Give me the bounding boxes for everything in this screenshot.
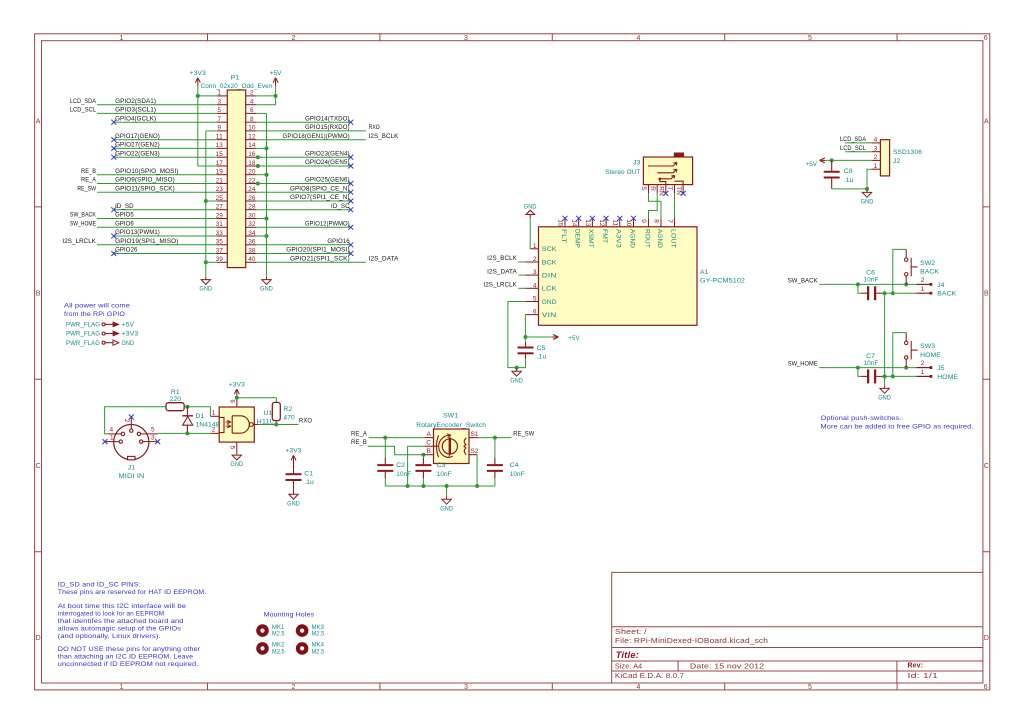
A1 pin 1 SCK bbox=[530, 248, 538, 250]
svg-text:5: 5 bbox=[808, 35, 812, 42]
svg-text:than attaching an I2C ID EEPRO: than attaching an I2C ID EEPROM. Leave bbox=[58, 654, 194, 661]
junction bbox=[204, 260, 208, 264]
svg-text:I2S_BCLK: I2S_BCLK bbox=[369, 133, 399, 140]
svg-text:C5: C5 bbox=[537, 345, 546, 352]
wire J2 pin1 down bbox=[867, 169, 872, 189]
A1 pin 12 FMT bbox=[605, 218, 607, 227]
svg-text:2: 2 bbox=[921, 277, 925, 284]
svg-text:4: 4 bbox=[637, 35, 641, 42]
svg-text:8: 8 bbox=[250, 116, 254, 123]
svg-text:3: 3 bbox=[464, 35, 468, 42]
wire R1 to U1 pin1 bbox=[184, 407, 210, 417]
P1 pin 24 bbox=[246, 191, 257, 193]
svg-text:3: 3 bbox=[533, 269, 537, 276]
svg-text:RE_B: RE_B bbox=[351, 439, 367, 446]
wire to GND rail bbox=[256, 147, 266, 149]
svg-text:GPIO4(GCLK): GPIO4(GCLK) bbox=[115, 115, 156, 122]
svg-text:1: 1 bbox=[533, 243, 537, 250]
svg-text:6: 6 bbox=[984, 35, 988, 42]
SW1 pin S1 bbox=[469, 437, 479, 439]
no-connect bbox=[563, 216, 568, 221]
wire C5 to GND bbox=[517, 359, 526, 368]
junction bbox=[274, 423, 278, 427]
svg-text:2: 2 bbox=[874, 154, 878, 161]
svg-text:1: 1 bbox=[921, 369, 925, 376]
svg-text:LCD_SCL: LCD_SCL bbox=[840, 145, 866, 152]
junction bbox=[256, 182, 260, 186]
no-connect bbox=[348, 199, 353, 204]
svg-text:.1u: .1u bbox=[844, 177, 854, 184]
P1 pin 12 bbox=[246, 139, 257, 141]
wire bbox=[518, 261, 525, 263]
svg-text:R2: R2 bbox=[283, 406, 292, 413]
svg-text:4: 4 bbox=[250, 99, 254, 106]
P1 pin 6 bbox=[246, 112, 257, 114]
junction bbox=[265, 173, 269, 177]
SW1 pin B bbox=[425, 454, 434, 456]
svg-text:+5V: +5V bbox=[122, 322, 135, 329]
svg-text:M2.5: M2.5 bbox=[312, 648, 325, 655]
svg-text:I2S_BCLK: I2S_BCLK bbox=[487, 255, 517, 262]
svg-text:10nF: 10nF bbox=[510, 471, 525, 478]
J1 pin 5 bbox=[137, 432, 140, 435]
no-connect bbox=[663, 191, 668, 196]
svg-text:+5V: +5V bbox=[568, 335, 580, 342]
svg-text:A: A bbox=[427, 431, 432, 438]
wire RE_A to pin A bbox=[369, 437, 425, 439]
svg-text:I2S_DATA: I2S_DATA bbox=[487, 268, 517, 275]
svg-text:SW2: SW2 bbox=[920, 260, 935, 267]
svg-text:All power will come: All power will come bbox=[64, 303, 130, 310]
svg-text:+3V3: +3V3 bbox=[285, 448, 301, 455]
wire to GND rail bbox=[256, 218, 266, 220]
resistor R1 220 bbox=[166, 403, 184, 411]
svg-text:SW_HOME: SW_HOME bbox=[70, 220, 96, 227]
svg-text:GPIO23(GEN4): GPIO23(GEN4) bbox=[305, 150, 350, 157]
P1 pin 35 bbox=[217, 244, 227, 246]
svg-text:GPIO17(GENO): GPIO17(GENO) bbox=[115, 133, 160, 140]
P1 pin 11 bbox=[217, 139, 227, 141]
svg-text:RE_A: RE_A bbox=[81, 177, 96, 184]
wire bbox=[256, 183, 351, 185]
junction bbox=[421, 484, 425, 488]
svg-text:FLT: FLT bbox=[560, 229, 567, 243]
svg-text:These pins are reserved for HA: These pins are reserved for HAT ID EEPRO… bbox=[58, 589, 207, 596]
J3 pin TN bbox=[682, 185, 684, 193]
svg-text:SW_BACK: SW_BACK bbox=[788, 278, 818, 285]
P1 pin 14 bbox=[246, 147, 257, 149]
svg-text:SW_HOME: SW_HOME bbox=[788, 361, 818, 368]
svg-text:AGND: AGND bbox=[628, 229, 635, 248]
svg-text:12: 12 bbox=[248, 134, 256, 141]
svg-text:M2.5: M2.5 bbox=[272, 648, 285, 655]
svg-text:C4: C4 bbox=[510, 462, 519, 469]
J3 pin R bbox=[656, 185, 658, 193]
svg-text:XSMT: XSMT bbox=[587, 229, 594, 248]
svg-text:GPIO26: GPIO26 bbox=[115, 247, 137, 254]
svg-text:A: A bbox=[36, 118, 41, 125]
P1 pin 1 bbox=[217, 95, 227, 97]
svg-text:RotaryEncoder_Switch: RotaryEncoder_Switch bbox=[416, 422, 486, 429]
A1 pin 7 LOUT bbox=[674, 218, 676, 227]
J3 pin T bbox=[674, 185, 676, 193]
svg-text:GPIO14(TXDO): GPIO14(TXDO) bbox=[305, 115, 350, 122]
ground symbol GND left bbox=[205, 277, 207, 280]
P1 pin 27 bbox=[217, 209, 227, 211]
svg-text:4: 4 bbox=[110, 427, 114, 434]
no-connect bbox=[348, 225, 353, 230]
junction bbox=[856, 282, 860, 286]
svg-text:GPIO13(PWM1): GPIO13(PWM1) bbox=[115, 229, 160, 236]
wire A1 pin6 VIN down bbox=[524, 315, 526, 337]
svg-text:ROUT: ROUT bbox=[643, 229, 650, 248]
wire J1 pin4 up and to R1 bbox=[105, 407, 166, 434]
svg-text:At boot time this I2C interfac: At boot time this I2C interface will be bbox=[58, 603, 187, 610]
svg-text:B: B bbox=[427, 448, 431, 455]
A1 pin 3 DIN bbox=[525, 274, 538, 276]
wire GND rail right bbox=[266, 113, 268, 276]
svg-text:SW3: SW3 bbox=[920, 343, 935, 350]
svg-text:1: 1 bbox=[120, 35, 124, 42]
svg-text:J1: J1 bbox=[128, 464, 135, 471]
svg-text:S1: S1 bbox=[471, 431, 479, 438]
no-connect bbox=[348, 207, 353, 212]
wire bbox=[97, 218, 217, 220]
svg-text:+5V: +5V bbox=[806, 161, 818, 168]
svg-text:RE_B: RE_B bbox=[81, 168, 96, 175]
P1 pin 13 bbox=[217, 147, 227, 149]
svg-text:SW1: SW1 bbox=[443, 412, 458, 419]
mounting hole MK3 M2.5 bbox=[296, 624, 309, 637]
wire +3V3 to R2 bbox=[237, 398, 276, 403]
junction bbox=[265, 217, 269, 221]
svg-text:SSD1306: SSD1306 bbox=[893, 149, 922, 156]
svg-text:38: 38 bbox=[248, 247, 256, 254]
svg-text:Title:: Title: bbox=[616, 650, 639, 661]
no-connect bbox=[348, 155, 353, 160]
wire RE_B to pin B bbox=[368, 446, 425, 455]
no-connect bbox=[590, 216, 595, 221]
wire bbox=[114, 209, 217, 211]
no-connect bbox=[155, 439, 160, 444]
power symbol +3V3 above U1 bbox=[236, 390, 238, 398]
no-connect bbox=[111, 207, 116, 212]
P1 pin 10 bbox=[246, 130, 257, 132]
svg-text:6: 6 bbox=[533, 309, 537, 316]
svg-text:Conn_02x20_Odd_Even: Conn_02x20_Odd_Even bbox=[201, 83, 273, 90]
no-connect bbox=[617, 216, 622, 221]
IC A1 GY-PCM5102 bbox=[539, 227, 698, 325]
svg-text:1: 1 bbox=[110, 434, 114, 441]
svg-text:8: 8 bbox=[653, 219, 660, 223]
svg-text:ID_SD and ID_SC PINS:: ID_SD and ID_SC PINS: bbox=[58, 582, 141, 589]
svg-text:File: RPi-MiniDexed-IOBoard.ki: File: RPi-MiniDexed-IOBoard.kicad_sch bbox=[615, 638, 768, 645]
svg-text:3: 3 bbox=[874, 146, 878, 153]
svg-text:More can be added to free GPIO: More can be added to free GPIO as requir… bbox=[821, 423, 974, 430]
J2 pin 2 bbox=[872, 159, 881, 161]
junction bbox=[265, 146, 269, 150]
wire bbox=[256, 139, 366, 141]
no-connect bbox=[631, 216, 636, 221]
U1 pin 1 bbox=[210, 415, 219, 417]
J3 pin RN bbox=[665, 185, 667, 193]
P1 pin 4 bbox=[246, 104, 257, 106]
wire bbox=[819, 367, 916, 369]
svg-text:LCD_SDA: LCD_SDA bbox=[840, 136, 866, 143]
svg-text:4: 4 bbox=[533, 282, 537, 289]
svg-text:220: 220 bbox=[170, 396, 182, 403]
wire bbox=[819, 283, 916, 285]
P1 pin 30 bbox=[246, 218, 257, 220]
U1 pin 6 bbox=[236, 398, 238, 407]
P1 pin 17 bbox=[217, 165, 227, 167]
svg-text:C6: C6 bbox=[866, 270, 875, 277]
svg-text:+3V3: +3V3 bbox=[122, 331, 139, 338]
svg-text:U1: U1 bbox=[264, 410, 273, 417]
svg-text:R: R bbox=[649, 186, 656, 191]
wire bbox=[97, 226, 217, 228]
svg-text:PWR_FLAG: PWR_FLAG bbox=[66, 322, 100, 329]
connector J3 Stereo OUT bbox=[643, 157, 692, 185]
svg-text:Sheet: /: Sheet: / bbox=[615, 629, 647, 636]
svg-text:5: 5 bbox=[229, 446, 236, 450]
A1 pin 15 FLT bbox=[564, 218, 566, 227]
svg-text:R1: R1 bbox=[171, 389, 180, 396]
no-connect bbox=[111, 120, 116, 125]
junction bbox=[904, 282, 908, 286]
svg-text:C3: C3 bbox=[437, 462, 446, 469]
connector J2 SSD1306 bbox=[880, 140, 889, 176]
svg-text:Size: A4: Size: A4 bbox=[615, 663, 642, 670]
junction bbox=[904, 366, 908, 370]
wire bbox=[256, 200, 351, 202]
wire J3 R to A1 pin9 bbox=[649, 193, 658, 218]
A1 pin 5 GND bbox=[525, 301, 538, 303]
ground symbol GND bbox=[866, 190, 868, 193]
P1 pin 5 bbox=[217, 112, 227, 114]
no-connect bbox=[102, 439, 107, 444]
svg-text:HOME: HOME bbox=[920, 352, 941, 359]
svg-text:14: 14 bbox=[248, 142, 256, 149]
no-connect bbox=[111, 234, 116, 239]
wire GND rail between switches bbox=[884, 293, 886, 385]
svg-text:GY-PCM5102: GY-PCM5102 bbox=[700, 277, 745, 284]
junction bbox=[256, 164, 260, 168]
svg-text:S: S bbox=[640, 186, 647, 191]
svg-text:RE_A: RE_A bbox=[351, 431, 367, 438]
no-connect bbox=[348, 181, 353, 186]
svg-text:J3: J3 bbox=[633, 160, 640, 167]
svg-text:T: T bbox=[666, 186, 673, 190]
svg-text:J5: J5 bbox=[937, 365, 944, 372]
J4 pin 1 bbox=[916, 292, 929, 294]
wire S1 to RE_SW bbox=[479, 437, 512, 439]
svg-text:7: 7 bbox=[666, 219, 673, 223]
svg-text:GPIO21(SPI1_SCK): GPIO21(SPI1_SCK) bbox=[290, 255, 350, 262]
A1 pin 9 ROUT bbox=[648, 218, 650, 227]
J4 pin 2 bbox=[916, 283, 929, 285]
wire bbox=[97, 191, 217, 193]
svg-text:GND: GND bbox=[440, 505, 453, 512]
ground symbol GND below U1 bbox=[236, 452, 238, 455]
svg-text:C1: C1 bbox=[304, 470, 313, 477]
no-connect bbox=[681, 191, 686, 196]
svg-text:2: 2 bbox=[292, 684, 296, 691]
connector J1 MIDI IN (DIN-5) bbox=[114, 425, 149, 460]
svg-text:C7: C7 bbox=[866, 353, 875, 360]
P1 pin 9 bbox=[217, 130, 227, 132]
svg-text:10nF: 10nF bbox=[864, 360, 879, 367]
svg-text:32: 32 bbox=[248, 221, 256, 228]
wire bbox=[845, 151, 872, 153]
svg-text:GND: GND bbox=[510, 377, 523, 384]
no-connect bbox=[348, 242, 353, 247]
svg-text:1: 1 bbox=[217, 90, 221, 97]
svg-text:PWR_FLAG: PWR_FLAG bbox=[66, 340, 100, 347]
wire bbox=[256, 226, 351, 228]
svg-text:GPIO6: GPIO6 bbox=[115, 220, 134, 227]
J1 pin 3 bbox=[140, 440, 143, 443]
svg-text:GPIO27(GEN2): GPIO27(GEN2) bbox=[115, 142, 160, 149]
svg-text:9: 9 bbox=[640, 219, 647, 223]
svg-text:GPIO8(SPIO_CE_N): GPIO8(SPIO_CE_N) bbox=[290, 185, 350, 192]
svg-text:+3V3: +3V3 bbox=[229, 381, 245, 388]
wire J3 S to A1 pin8 bbox=[649, 193, 662, 218]
svg-text:10nF: 10nF bbox=[864, 277, 879, 284]
P1 pin 34 bbox=[246, 235, 257, 237]
svg-text:1: 1 bbox=[921, 286, 925, 293]
wire to +3V3 bbox=[198, 95, 217, 97]
svg-text:GPIO5: GPIO5 bbox=[115, 212, 134, 219]
wire to GND rail bbox=[256, 112, 266, 114]
wire bbox=[114, 147, 217, 149]
wire pin C down bbox=[408, 446, 425, 486]
wire J3 T to A1 pin7 bbox=[674, 193, 676, 218]
svg-text:LCK: LCK bbox=[542, 286, 557, 293]
junction bbox=[883, 291, 887, 295]
svg-text:B: B bbox=[984, 291, 989, 298]
svg-text:2: 2 bbox=[533, 256, 537, 263]
junction bbox=[891, 374, 895, 378]
J3 internal contacts bbox=[648, 162, 677, 166]
svg-text:ID_SC: ID_SC bbox=[331, 203, 350, 210]
svg-text:28: 28 bbox=[248, 204, 256, 211]
svg-text:GPIO12(PWMO): GPIO12(PWMO) bbox=[305, 220, 350, 227]
svg-text:KiCad E.D.A. 8.0.7: KiCad E.D.A. 8.0.7 bbox=[615, 673, 684, 680]
svg-text:SCK: SCK bbox=[542, 246, 557, 253]
svg-text:MIDI IN: MIDI IN bbox=[119, 473, 145, 480]
wire GND stem bbox=[446, 486, 448, 497]
wire from +3V3 rail bbox=[198, 165, 217, 167]
P1 pin 37 bbox=[217, 253, 227, 255]
ground symbol GND below SW1 bbox=[446, 497, 448, 500]
svg-text:5: 5 bbox=[151, 427, 155, 434]
capacitor C5 bbox=[524, 337, 526, 342]
wire bbox=[518, 287, 525, 289]
SW1 pin C bbox=[425, 445, 434, 447]
wire bbox=[256, 130, 366, 132]
svg-text:2: 2 bbox=[921, 360, 925, 367]
P1 pin 26 bbox=[246, 200, 257, 202]
mounting hole MK1 M2.5 bbox=[256, 624, 269, 637]
svg-text:4: 4 bbox=[637, 684, 641, 691]
svg-text:3: 3 bbox=[464, 684, 468, 691]
svg-text:GND: GND bbox=[230, 461, 243, 468]
wire bbox=[114, 235, 217, 237]
junction bbox=[493, 436, 497, 440]
wire to switch top bbox=[893, 249, 906, 293]
junction bbox=[274, 94, 278, 98]
wire bbox=[256, 96, 275, 105]
SW1 knob symbol bbox=[442, 439, 457, 454]
svg-text:.1u: .1u bbox=[304, 479, 314, 486]
P1 pin 22 bbox=[246, 183, 257, 185]
capacitor C2 bbox=[384, 438, 386, 458]
svg-text:GPIO19(SPI1_MISO): GPIO19(SPI1_MISO) bbox=[115, 238, 178, 245]
wire R2 to output bbox=[275, 421, 277, 425]
svg-text:BACK: BACK bbox=[937, 291, 956, 298]
svg-text:10: 10 bbox=[248, 125, 256, 132]
svg-text:BCK: BCK bbox=[542, 259, 557, 266]
svg-text:D: D bbox=[984, 635, 989, 642]
svg-text:DIN: DIN bbox=[542, 273, 557, 280]
SW1 left contacts bbox=[437, 435, 439, 457]
power symbol +5V (right arrow) bbox=[553, 336, 558, 338]
svg-text:470: 470 bbox=[283, 414, 295, 421]
wire bbox=[114, 156, 217, 158]
svg-text:GPIO16: GPIO16 bbox=[327, 238, 349, 245]
wire S2 down bbox=[476, 455, 478, 486]
svg-text:PWR_FLAG: PWR_FLAG bbox=[66, 331, 100, 338]
svg-text:.1u: .1u bbox=[537, 353, 547, 360]
svg-text:2: 2 bbox=[292, 35, 296, 42]
svg-text:J4: J4 bbox=[937, 282, 944, 289]
P1 pin 36 bbox=[246, 244, 257, 246]
junction bbox=[196, 94, 200, 98]
P1 pin 3 bbox=[217, 104, 227, 106]
svg-text:DO NOT USE these pins for anyt: DO NOT USE these pins for anything other bbox=[58, 646, 201, 653]
svg-text:24: 24 bbox=[248, 186, 256, 193]
svg-text:LOUT: LOUT bbox=[669, 229, 676, 248]
svg-text:1: 1 bbox=[212, 410, 216, 417]
junction bbox=[185, 431, 189, 435]
P1 pin 21 bbox=[217, 183, 227, 185]
svg-text:A3V3: A3V3 bbox=[615, 229, 622, 248]
svg-text:I2S_DATA: I2S_DATA bbox=[369, 255, 399, 262]
U1 pin 2 bbox=[210, 432, 219, 434]
wire bbox=[256, 121, 351, 123]
wire to GND rail bbox=[206, 200, 217, 202]
svg-text:GPIO18(GEN1)(PWMO): GPIO18(GEN1)(PWMO) bbox=[283, 133, 350, 140]
svg-text:1N4148: 1N4148 bbox=[196, 421, 220, 428]
svg-text:GPIO15(RXDO): GPIO15(RXDO) bbox=[305, 124, 350, 131]
svg-text:26: 26 bbox=[248, 195, 256, 202]
svg-text:allows automagic setup of the: allows automagic setup of the GPIOs bbox=[58, 625, 182, 632]
P1 pin 7 bbox=[217, 121, 227, 123]
wire bbox=[114, 139, 217, 141]
svg-text:GPIO22(GEN3): GPIO22(GEN3) bbox=[115, 150, 160, 157]
junction bbox=[830, 158, 834, 162]
svg-text:M2.5: M2.5 bbox=[312, 631, 325, 638]
svg-text:Stereo OUT: Stereo OUT bbox=[605, 169, 640, 176]
wire bbox=[97, 112, 217, 114]
junction bbox=[883, 374, 887, 378]
wire bbox=[97, 183, 217, 185]
svg-text:1: 1 bbox=[120, 684, 124, 691]
J2 pin 3 bbox=[872, 151, 881, 153]
svg-text:2: 2 bbox=[212, 427, 216, 434]
svg-text:from the RPi GPIO: from the RPi GPIO bbox=[64, 311, 125, 318]
